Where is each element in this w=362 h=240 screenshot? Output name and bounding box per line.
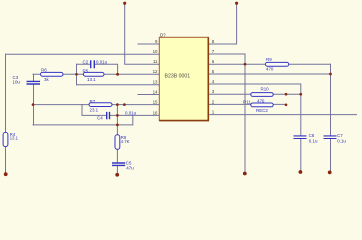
svg-text:R10: R10 [261,86,270,91]
svg-text:0.1u: 0.1u [337,138,346,143]
svg-text:R6: R6 [41,68,47,73]
svg-text:0.01u: 0.01u [125,110,137,115]
svg-text:R7: R7 [90,99,96,104]
svg-text:D?: D? [160,33,166,38]
svg-text:47u: 47u [126,165,134,170]
svg-text:C4: C4 [97,116,103,121]
svg-text:23.1: 23.1 [90,108,99,113]
svg-text:470: 470 [257,98,265,103]
svg-text:0.01u: 0.01u [96,59,108,64]
svg-text:11: 11 [153,59,158,64]
svg-text:470: 470 [266,66,274,71]
svg-text:4.7K: 4.7K [121,139,130,144]
svg-text:B23B 0001: B23B 0001 [165,73,191,79]
svg-text:0.1u: 0.1u [309,138,318,143]
svg-text:13.1: 13.1 [10,136,19,141]
svg-text:C7: C7 [337,133,343,138]
svg-text:R5: R5 [83,68,89,73]
svg-text:3k: 3k [44,77,49,82]
svg-text:13: 13 [153,80,158,85]
svg-text:16: 16 [153,110,158,115]
svg-text:REC2: REC2 [256,108,268,113]
svg-text:R9: R9 [266,57,272,62]
svg-text:13.1: 13.1 [87,77,96,82]
svg-text:C6: C6 [309,133,315,138]
svg-text:15: 15 [153,100,158,105]
svg-text:R11: R11 [243,100,251,105]
svg-text:10u: 10u [13,80,21,85]
svg-text:10: 10 [153,49,158,54]
svg-text:14: 14 [153,89,158,94]
svg-text:12: 12 [153,69,158,74]
svg-text:C2: C2 [83,59,89,64]
